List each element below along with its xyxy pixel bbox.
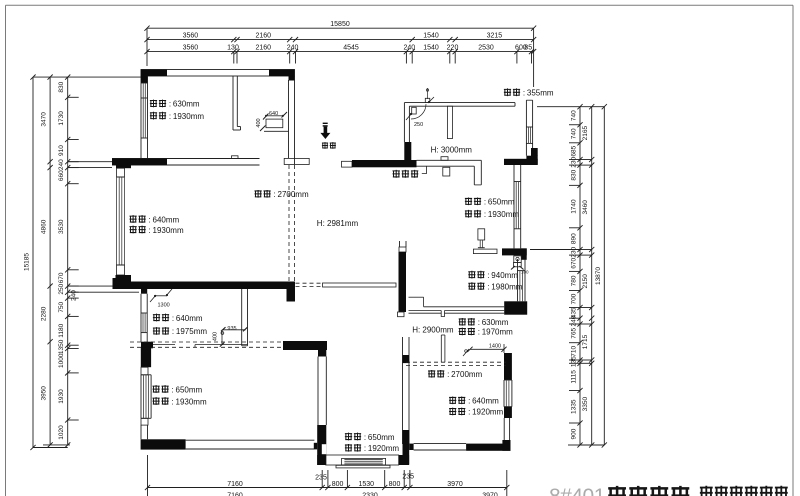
room A bottom wall [473,249,497,254]
svg-text:740: 740 [571,110,578,121]
svg-text:250: 250 [58,283,65,294]
svg-text:650mm: 650mm [488,198,515,207]
svg-text:685: 685 [571,145,578,156]
svg-text::: : [172,397,174,406]
right dimension chain outer 13870 [603,107,605,445]
svg-text:660: 660 [58,170,65,181]
svg-text:740: 740 [571,128,578,139]
svg-text:3560: 3560 [183,44,199,51]
svg-text:H: 3000mm: H: 3000mm [431,145,473,154]
svg-text:2530: 2530 [478,44,494,51]
svg-text:1540: 1540 [423,32,439,39]
svg-text::: : [478,318,480,327]
svg-text::: : [478,328,480,337]
room1 top-left bedroom: top wall [141,70,295,77]
electric box [443,167,450,176]
svg-text:1730: 1730 [58,111,65,126]
room1 left wall with window [140,70,142,159]
svg-text:240: 240 [58,159,65,170]
left dimension chain mid [49,77,51,445]
label electric box [393,170,400,178]
bathroom right wall [241,289,243,346]
bedroomM left wall [402,337,404,444]
bedroomL/bedroomM shared wall [318,350,326,357]
svg-text:1300: 1300 [158,303,170,309]
beam dashed bedroomM top [406,361,506,363]
svg-text::: : [364,444,366,453]
right chain connectors and extensions [537,106,604,108]
svg-text:650mm: 650mm [176,385,203,394]
room1 right wall [288,80,290,159]
svg-text:800: 800 [332,481,344,488]
top dimension chain row3 [147,51,534,53]
kitchen/entry bottom wall [342,161,353,167]
svg-text:1970mm: 1970mm [482,328,513,337]
bedroomL bottom wall [186,439,315,441]
svg-text:1335: 1335 [571,399,578,414]
svg-text:240: 240 [403,44,415,51]
svg-text:650mm: 650mm [368,433,395,442]
svg-text:1980mm: 1980mm [491,282,522,291]
room1 interior partition [232,76,234,130]
svg-text:1180: 1180 [58,323,65,337]
svg-text:130: 130 [227,44,239,51]
svg-text:830: 830 [571,169,578,180]
kitchen top wall [404,102,515,104]
svg-text:2330: 2330 [362,493,378,496]
beam dashed corridor/bedroomL [130,341,283,343]
svg-text:1930mm: 1930mm [173,112,204,121]
svg-text:7160: 7160 [227,493,243,496]
svg-text:230: 230 [571,156,578,167]
svg-text:220: 220 [447,44,459,51]
label bedroomM window [449,396,456,404]
label beam 2700 living [254,190,261,198]
svg-text:640: 640 [269,111,278,117]
bedroomM right wall with window [504,353,512,380]
svg-text:13870: 13870 [595,267,602,285]
kitchen top-left jog [425,98,430,102]
page border frame [6,4,794,6]
svg-text:15185: 15185 [24,253,31,271]
400 dim detail [221,330,223,345]
svg-text:240: 240 [287,44,299,51]
svg-text::: : [172,385,174,394]
svg-text:2160: 2160 [256,32,272,39]
dashed beam lines living/dining [288,165,290,283]
svg-text:940mm: 940mm [491,271,518,280]
svg-text:8#401: 8#401 [549,485,605,496]
svg-text:630mm: 630mm [173,100,200,109]
svg-text:3350: 3350 [582,397,589,412]
bedroom2 bottom black corner [504,301,527,314]
label bathroom window [153,314,160,322]
svg-text:2160: 2160 [256,44,272,51]
label closet window 630/1970 [459,318,466,326]
svg-text:1400: 1400 [489,344,501,350]
corridor south wall thin [323,283,397,287]
label beam 2700 bedroomM [428,370,435,378]
entrance arrow 入口 [323,122,328,124]
svg-text:900: 900 [571,428,578,439]
svg-text::: : [468,408,470,417]
closet shelf step [409,296,424,298]
svg-text:1000: 1000 [58,353,65,368]
wall arm below living room SE corner [287,289,296,302]
svg-text:H: 2981mm: H: 2981mm [317,219,359,228]
svg-text:3560: 3560 [183,32,199,39]
svg-text:4545: 4545 [343,44,359,51]
closet partition wall [440,335,442,362]
svg-text:1350: 1350 [58,339,65,354]
svg-text:235: 235 [315,475,327,482]
svg-text::: : [487,282,489,291]
svg-text:3970: 3970 [482,493,498,496]
svg-text:1115: 1115 [571,370,578,384]
room1 bottom wall (shared with living room) [112,158,260,160]
living room left wall with window [116,159,131,169]
svg-text:640mm: 640mm [176,314,203,323]
living room bottom wall (black band) [113,282,296,290]
corridor south wall pair with notch [409,310,442,312]
svg-text:1920mm: 1920mm [472,408,503,417]
bedroom2 window sill detail [514,256,521,263]
svg-text:670: 670 [571,257,578,268]
room1 bottom wall notch at partition base [232,156,239,159]
label room1 window [150,100,157,108]
svg-text::: : [484,198,486,207]
svg-text:2150: 2150 [582,274,589,289]
svg-text:710: 710 [571,346,578,357]
bay window bottom [326,455,399,465]
svg-text:355mm: 355mm [527,89,554,98]
label living room window [129,215,136,223]
bedroom2 right wall with window [517,259,519,301]
black band right of kitchen [504,159,538,165]
svg-text:1930mm: 1930mm [153,226,184,235]
bottom chain extensions [147,455,149,496]
svg-text::: : [364,433,366,442]
dining east wall upper [473,166,475,185]
label door 355 [504,88,511,96]
svg-text:400: 400 [256,118,262,127]
svg-text:780: 780 [571,275,578,286]
svg-text:3970: 3970 [447,481,463,488]
svg-text:2165: 2165 [582,125,589,140]
svg-text:630mm: 630mm [482,318,509,327]
left dimension chain outer 15185 [32,77,34,447]
svg-text:890: 890 [571,233,578,244]
bedroomM bottom wall [414,443,467,445]
svg-text::: : [468,397,470,406]
svg-text:1930mm: 1930mm [488,210,519,219]
room1 niche 640x400 [267,115,283,117]
room A right wall with window [513,162,515,248]
svg-text:250: 250 [414,122,423,128]
svg-text:1740: 1740 [571,199,578,214]
top chain extension lines [146,28,148,66]
svg-text:3530: 3530 [58,219,65,234]
bathroom left wall with window [141,288,147,294]
svg-text:2700mm: 2700mm [451,370,482,379]
svg-text:85: 85 [524,44,532,51]
svg-text::: : [172,327,174,336]
svg-text:230: 230 [571,246,578,257]
1400 opening dim [470,348,504,350]
svg-text::: : [487,271,489,280]
svg-text::: : [149,215,151,224]
svg-text:15850: 15850 [330,21,350,28]
svg-text:7160: 7160 [227,481,243,488]
svg-text:1930: 1930 [58,389,65,404]
bathroom bottom wall with door gap [153,344,175,346]
svg-text:3950: 3950 [41,386,48,401]
svg-text:830: 830 [58,81,65,92]
svg-text:670: 670 [58,272,65,283]
svg-text::: : [274,190,276,199]
svg-text:3215: 3215 [487,32,503,39]
svg-text:1020: 1020 [58,425,65,440]
svg-text:640mm: 640mm [153,215,180,224]
svg-text::: : [447,370,449,379]
foyer T-stub wall [284,158,309,164]
kitchen left wall [403,103,405,142]
svg-text:800: 800 [389,481,401,488]
bottom dimension chain row A [148,487,507,489]
svg-text::: : [169,100,171,109]
svg-text:765: 765 [571,328,578,339]
svg-text::: : [484,210,486,219]
svg-text:700: 700 [571,293,578,304]
svg-text::: : [149,226,151,235]
svg-text:135: 135 [571,356,578,367]
kitchen right wall with window [526,99,532,101]
svg-text:240: 240 [571,315,578,326]
svg-text:750: 750 [58,301,65,312]
svg-text:910: 910 [58,145,65,156]
top dimension chain row1 15850 [147,27,534,29]
svg-text:3460: 3460 [582,200,589,215]
svg-text:2280: 2280 [41,306,48,321]
label bay window [345,433,352,441]
svg-text:3470: 3470 [41,112,48,127]
svg-text:1540: 1540 [423,44,439,51]
label bedroomL window [152,385,159,393]
svg-text:4860: 4860 [41,219,48,234]
svg-text::: : [169,112,171,121]
svg-text:1715: 1715 [582,334,589,349]
right dimension chain mid [591,107,593,445]
svg-text:240: 240 [71,290,78,301]
label bedroom2 window [468,271,475,279]
svg-text:935: 935 [227,326,236,332]
right dimension chain inner [579,107,581,445]
svg-text:1530: 1530 [359,481,375,488]
kitchen interior partition [447,106,452,138]
svg-text::: : [523,89,525,98]
svg-text:1930mm: 1930mm [176,397,207,406]
left dimension chain inner [67,77,69,445]
svg-text:H: 2900mm: H: 2900mm [412,325,454,334]
label roomA window [465,197,472,205]
svg-text:400: 400 [213,332,219,341]
svg-text:1975mm: 1975mm [176,327,207,336]
dining west wall pillar [399,241,401,247]
top dimension chain row2 [147,39,534,41]
dining east wall lower + window [478,229,485,240]
left chain connectors and extensions [33,76,141,78]
svg-text::: : [172,314,174,323]
svg-text:640mm: 640mm [472,397,499,406]
bedroomL left wall with window [141,347,151,367]
svg-text:1920mm: 1920mm [368,444,399,453]
bedroomL top wall black [283,341,327,350]
kitchen door swing detail [412,107,417,114]
svg-text:2700mm: 2700mm [278,190,309,199]
